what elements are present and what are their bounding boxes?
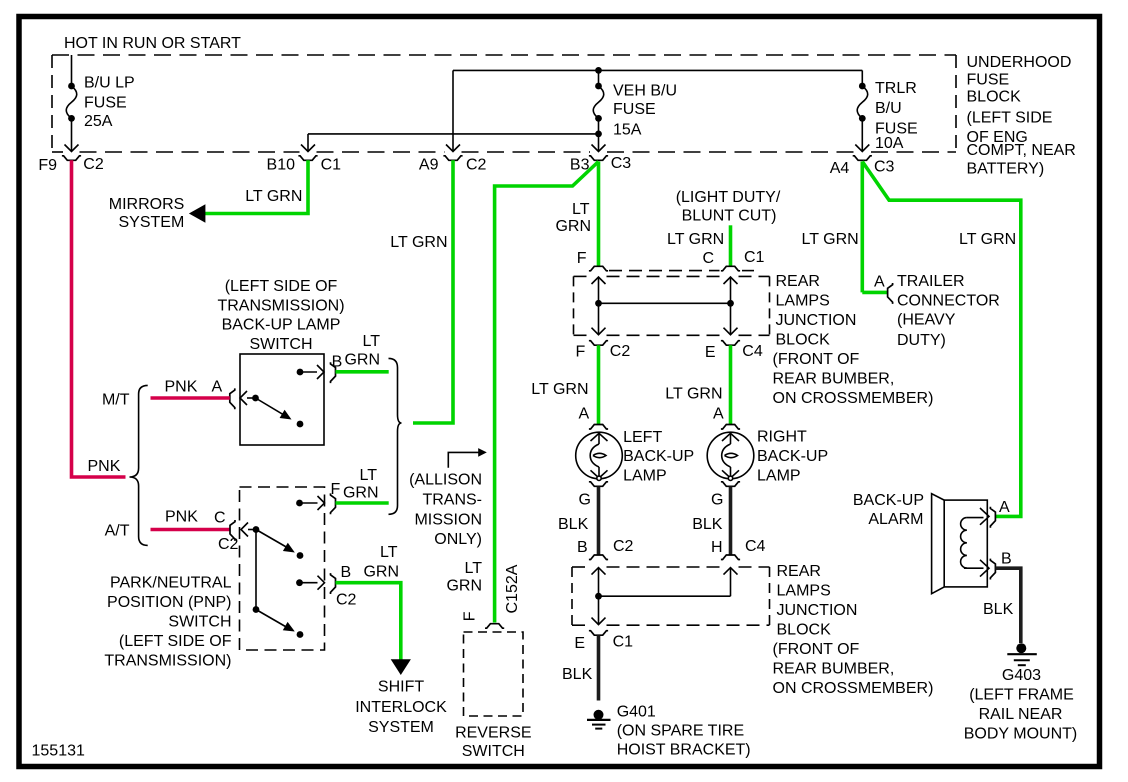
wire LT GRN from PNP B to shift interlock bbox=[336, 583, 401, 660]
svg-text:F: F bbox=[577, 250, 587, 267]
label LEFT BACK-UP LAMP bbox=[623, 429, 694, 484]
connector C C1 (junction block 1 top) bbox=[721, 266, 740, 271]
svg-text:FUSE: FUSE bbox=[84, 95, 127, 112]
arrow to shift interlock system bbox=[391, 659, 411, 675]
svg-text:A: A bbox=[713, 406, 724, 423]
node hot bus tap bbox=[595, 67, 602, 74]
svg-text:(LEFT SIDE: (LEFT SIDE bbox=[967, 110, 1053, 127]
svg-text:JUNCTION: JUNCTION bbox=[777, 602, 858, 619]
connector A (alarm) bbox=[990, 507, 995, 528]
connector A (right lamp) bbox=[721, 425, 740, 430]
svg-text:MIRRORS: MIRRORS bbox=[109, 196, 185, 213]
switch PNP contact F with arrow bbox=[300, 496, 325, 510]
label (LEFT SIDE OF TRANSMISSION) BACK-UP LAMP SWITCH bbox=[217, 278, 344, 353]
connector B (PNP) bbox=[331, 573, 336, 594]
svg-text:UNDERHOOD: UNDERHOOD bbox=[967, 54, 1072, 71]
svg-text:JUNCTION: JUNCTION bbox=[776, 312, 857, 329]
connector B3 C3 bbox=[589, 156, 608, 161]
svg-text:GRN: GRN bbox=[446, 577, 482, 594]
svg-text:G: G bbox=[579, 492, 591, 509]
connector B (S1) bbox=[331, 362, 336, 383]
svg-text:B: B bbox=[332, 354, 343, 371]
back-up lamp switch S1 box bbox=[240, 354, 324, 445]
label SHIFT INTERLOCK SYSTEM bbox=[355, 679, 447, 737]
svg-text:BLK: BLK bbox=[983, 601, 1014, 618]
svg-text:(ALLISON: (ALLISON bbox=[409, 472, 482, 489]
svg-text:LEFT: LEFT bbox=[623, 429, 662, 446]
svg-text:C: C bbox=[702, 250, 714, 267]
connector B C2 (block 2 top) bbox=[589, 555, 608, 560]
svg-text:C3: C3 bbox=[874, 159, 895, 176]
label PARK/NEUTRAL POSITION (PNP) SWITCH (LEFT SIDE OF TRANSMISSION) bbox=[104, 575, 231, 670]
svg-text:H: H bbox=[711, 539, 723, 556]
svg-text:BLOCK: BLOCK bbox=[777, 622, 832, 639]
svg-text:C2: C2 bbox=[610, 343, 631, 360]
svg-text:TRANSMISSION): TRANSMISSION) bbox=[104, 653, 231, 670]
wire feed to B10 bbox=[301, 134, 315, 152]
wire LT GRN from A9 down to brace output bbox=[413, 160, 453, 423]
svg-text:ON CROSSMEMBER): ON CROSSMEMBER) bbox=[773, 390, 934, 407]
svg-text:15A: 15A bbox=[613, 121, 642, 138]
svg-text:LAMPS: LAMPS bbox=[777, 583, 831, 600]
svg-text:A/T: A/T bbox=[105, 523, 130, 540]
svg-text:F9: F9 bbox=[38, 157, 57, 174]
wire LT GRN from B3 to reverse switch bbox=[495, 162, 599, 623]
svg-text:(HEAVY: (HEAVY bbox=[897, 312, 956, 329]
junction block 2 right branch bbox=[724, 568, 738, 597]
svg-text:F: F bbox=[576, 344, 586, 361]
fuse F3 TRLR B/U FUSE 10A bbox=[855, 70, 869, 151]
svg-text:LT: LT bbox=[572, 201, 590, 218]
svg-text:LAMP: LAMP bbox=[623, 467, 667, 484]
junction block 2 left pass-through bbox=[592, 568, 606, 625]
label REAR LAMPS JUNCTION BLOCK 2 bbox=[773, 563, 934, 697]
svg-text:C2: C2 bbox=[83, 156, 104, 173]
svg-text:LAMP: LAMP bbox=[757, 467, 801, 484]
svg-text:LT GRN: LT GRN bbox=[802, 231, 859, 248]
lamp E2 RIGHT BACK-UP LAMP bbox=[707, 432, 754, 480]
switch S1 contact A with arrow bbox=[240, 391, 256, 405]
connector B10 C1 bbox=[298, 156, 317, 161]
svg-text:B: B bbox=[341, 564, 352, 581]
brace left M/T A/T bbox=[130, 385, 148, 545]
svg-text:C2: C2 bbox=[466, 157, 487, 174]
junction block 2 tie wire bbox=[599, 595, 731, 597]
svg-text:(LIGHT DUTY/: (LIGHT DUTY/ bbox=[676, 189, 781, 206]
svg-text:FUSE: FUSE bbox=[967, 72, 1010, 89]
switch PNP arm 2 bbox=[256, 610, 288, 629]
junction block 1 dashed box bbox=[574, 276, 770, 335]
wire fused output bus to B10 bbox=[308, 133, 599, 135]
switch PNP contact C with arrow bbox=[241, 523, 256, 537]
fuse F2 VEH B/U FUSE 15A bbox=[592, 70, 606, 151]
junction block 1 right pass-through bbox=[724, 277, 738, 335]
connector C (PNP) bbox=[230, 520, 235, 541]
connector E C4 (block 1 bottom) bbox=[721, 341, 740, 346]
svg-text:TRANS-: TRANS- bbox=[422, 492, 482, 509]
svg-text:A9: A9 bbox=[419, 157, 439, 174]
brace right outputs bbox=[389, 358, 402, 514]
connector G (right lamp) bbox=[721, 482, 740, 487]
svg-text:M/T: M/T bbox=[102, 392, 130, 409]
svg-text:(LEFT FRAME: (LEFT FRAME bbox=[969, 687, 1074, 704]
lamp E1 LEFT BACK-UP LAMP bbox=[576, 432, 623, 480]
wire LT GRN A4 to back-up alarm bbox=[862, 162, 1021, 517]
connector A (trailer) bbox=[888, 283, 893, 304]
svg-text:PARK/NEUTRAL: PARK/NEUTRAL bbox=[110, 575, 232, 592]
switch PNP contact B with arrow bbox=[300, 576, 325, 590]
svg-text:G401: G401 bbox=[617, 704, 656, 721]
svg-text:TRLR: TRLR bbox=[875, 80, 917, 97]
switch PNP arm 1 bbox=[256, 530, 288, 549]
svg-text:C4: C4 bbox=[742, 343, 763, 360]
svg-text:SWITCH: SWITCH bbox=[168, 614, 231, 631]
svg-text:E: E bbox=[574, 635, 585, 652]
svg-text:25A: 25A bbox=[84, 113, 113, 130]
svg-text:A4: A4 bbox=[830, 160, 850, 177]
svg-text:BACK-UP: BACK-UP bbox=[757, 448, 828, 465]
back-up alarm speaker body bbox=[932, 494, 988, 594]
wire LT GRN blunt cut stub bbox=[729, 225, 733, 266]
svg-text:SHIFT: SHIFT bbox=[378, 679, 424, 696]
svg-text:LT GRN: LT GRN bbox=[959, 231, 1016, 248]
svg-text:(LEFT SIDE OF: (LEFT SIDE OF bbox=[225, 278, 338, 295]
svg-text:RAIL NEAR: RAIL NEAR bbox=[979, 706, 1063, 723]
junction block 1 left pass-through bbox=[592, 277, 606, 335]
connector A (left lamp) bbox=[589, 425, 608, 430]
connector F C2 (block 1 bottom) bbox=[589, 341, 608, 346]
svg-text:A: A bbox=[874, 274, 885, 291]
reverse switch dashed box bbox=[464, 632, 524, 716]
svg-text:A: A bbox=[999, 499, 1010, 516]
PNP switch dashed box bbox=[240, 487, 325, 650]
svg-text:LT GRN: LT GRN bbox=[665, 386, 722, 403]
label RIGHT BACK-UP LAMP bbox=[757, 429, 828, 485]
svg-text:B10: B10 bbox=[267, 157, 296, 174]
svg-text:LT GRN: LT GRN bbox=[245, 188, 302, 205]
node output bus tap bbox=[595, 131, 602, 138]
node fuse F2 bottom bbox=[595, 115, 602, 122]
switch S1 contact B with arrow bbox=[300, 365, 324, 379]
connector A9 C2 bbox=[443, 156, 462, 161]
svg-text:A: A bbox=[579, 406, 590, 423]
svg-text:BATTERY): BATTERY) bbox=[967, 161, 1045, 178]
allison note arrow bbox=[448, 452, 479, 467]
svg-text:(LEFT SIDE OF: (LEFT SIDE OF bbox=[119, 633, 232, 650]
switch PNP link line bbox=[255, 530, 257, 610]
svg-text:G: G bbox=[711, 492, 723, 509]
svg-text:MISSION: MISSION bbox=[414, 512, 482, 529]
svg-text:C2: C2 bbox=[613, 538, 634, 555]
wire feed to A9 bbox=[446, 70, 460, 151]
wire BLK to G401 bbox=[597, 635, 601, 700]
node fuse F2 top bbox=[595, 83, 602, 90]
svg-text:BLK: BLK bbox=[692, 516, 723, 533]
svg-text:SYSTEM: SYSTEM bbox=[119, 214, 185, 231]
connector F (PNP) bbox=[331, 493, 336, 514]
svg-text:BLK: BLK bbox=[558, 516, 589, 533]
svg-text:HOT IN RUN OR START: HOT IN RUN OR START bbox=[64, 35, 241, 52]
svg-text:COMPT, NEAR: COMPT, NEAR bbox=[967, 142, 1076, 159]
svg-text:LAMPS: LAMPS bbox=[776, 293, 830, 310]
connector H C4 (block 2 top) bbox=[721, 555, 740, 560]
label G401 (ON SPARE TIRE HOIST BRACKET) bbox=[617, 704, 751, 759]
svg-text:BACK-UP: BACK-UP bbox=[853, 492, 924, 509]
svg-text:ALARM: ALARM bbox=[868, 511, 923, 528]
svg-text:LT: LT bbox=[360, 467, 378, 484]
svg-text:LT: LT bbox=[363, 333, 381, 350]
svg-text:VEH B/U: VEH B/U bbox=[613, 82, 677, 99]
connector F9 C2 bbox=[62, 156, 81, 161]
ground G403 bbox=[1007, 643, 1037, 665]
arrow to mirrors system bbox=[189, 204, 206, 223]
svg-text:155131: 155131 bbox=[32, 743, 85, 760]
node fuse F1 bottom bbox=[68, 115, 75, 122]
svg-text:FUSE: FUSE bbox=[613, 101, 656, 118]
svg-text:REAR: REAR bbox=[777, 563, 821, 580]
label G403 (LEFT FRAME RAIL NEAR BODY MOUNT) bbox=[964, 667, 1077, 742]
connector A4 C3 bbox=[853, 156, 872, 161]
wire PNK from F9 bbox=[72, 160, 126, 477]
svg-text:C4: C4 bbox=[745, 538, 766, 555]
node fuse F1 top bbox=[68, 83, 75, 90]
svg-text:REAR BUMBER,: REAR BUMBER, bbox=[773, 661, 895, 678]
connector A (S1) bbox=[230, 388, 235, 409]
svg-text:C3: C3 bbox=[611, 155, 632, 172]
node junction block 2 bbox=[595, 593, 602, 600]
svg-text:(ON SPARE TIRE: (ON SPARE TIRE bbox=[617, 723, 744, 740]
svg-text:GRN: GRN bbox=[555, 218, 591, 235]
svg-text:SWITCH: SWITCH bbox=[249, 336, 312, 353]
svg-text:INTERLOCK: INTERLOCK bbox=[355, 699, 447, 716]
wire LT GRN to right lamp bbox=[729, 345, 733, 424]
label TRAILER CONNECTOR (HEAVY DUTY) bbox=[897, 273, 1000, 349]
svg-text:LT GRN: LT GRN bbox=[390, 234, 447, 251]
svg-text:CONNECTOR: CONNECTOR bbox=[897, 293, 1000, 310]
back-up alarm coil bbox=[961, 518, 984, 569]
svg-text:C: C bbox=[214, 510, 226, 527]
svg-text:BLK: BLK bbox=[562, 666, 593, 683]
svg-text:REVERSE: REVERSE bbox=[455, 725, 531, 742]
connector E C1 (block 2 bottom) bbox=[589, 631, 608, 636]
node fuse F3 bottom bbox=[859, 115, 866, 122]
svg-text:PNK: PNK bbox=[88, 458, 121, 475]
svg-text:REAR BUMBER,: REAR BUMBER, bbox=[773, 371, 895, 388]
svg-text:SWITCH: SWITCH bbox=[462, 743, 525, 760]
svg-text:RIGHT: RIGHT bbox=[757, 429, 807, 446]
svg-text:BLOCK: BLOCK bbox=[967, 88, 1022, 105]
svg-text:BACK-UP: BACK-UP bbox=[623, 448, 694, 465]
wire PNK M/T bbox=[151, 396, 230, 400]
svg-text:POSITION (PNP): POSITION (PNP) bbox=[107, 594, 231, 611]
junction block 1 tie wire bbox=[599, 302, 731, 304]
svg-text:TRANSMISSION): TRANSMISSION) bbox=[217, 297, 344, 314]
wire LT GRN A4 to trailer connector bbox=[860, 162, 864, 293]
connector F C152A (reverse switch) bbox=[485, 624, 504, 629]
svg-text:(FRONT OF: (FRONT OF bbox=[773, 641, 860, 658]
label REAR LAMPS JUNCTION BLOCK 1 bbox=[773, 273, 934, 407]
wire LT GRN stub from PNP F bbox=[336, 501, 389, 505]
label (ALLISON TRANSMISSION ONLY) bbox=[409, 472, 482, 548]
svg-text:TRAILER: TRAILER bbox=[897, 273, 965, 290]
svg-text:BLUNT CUT): BLUNT CUT) bbox=[682, 208, 777, 225]
label UNDERHOOD FUSE BLOCK bbox=[967, 54, 1076, 178]
svg-text:B: B bbox=[1001, 551, 1012, 568]
wire LT GRN stub from S1 B bbox=[336, 370, 389, 374]
switch S1 movable arm bbox=[256, 398, 289, 417]
svg-text:PNK: PNK bbox=[165, 509, 198, 526]
underhood fuse block dashed box bbox=[52, 55, 956, 152]
svg-text:B: B bbox=[577, 539, 588, 556]
svg-text:SYSTEM: SYSTEM bbox=[368, 719, 434, 736]
svg-text:HOIST BRACKET): HOIST BRACKET) bbox=[617, 742, 751, 759]
svg-text:PNK: PNK bbox=[165, 378, 198, 395]
connector G (left lamp) bbox=[589, 482, 608, 487]
wire BLK alarm to G403 bbox=[995, 568, 1020, 643]
svg-text:LT GRN: LT GRN bbox=[667, 231, 724, 248]
svg-text:LT GRN: LT GRN bbox=[531, 381, 588, 398]
svg-text:B/U: B/U bbox=[875, 100, 902, 117]
connector B (alarm) bbox=[990, 559, 995, 580]
terminal A arrow (alarm) bbox=[980, 508, 989, 525]
wire LT GRN to left lamp bbox=[597, 345, 601, 424]
svg-text:C1: C1 bbox=[321, 157, 342, 174]
svg-text:ONLY): ONLY) bbox=[434, 531, 482, 548]
svg-text:F: F bbox=[461, 611, 478, 621]
svg-text:10A: 10A bbox=[875, 135, 904, 152]
svg-text:G403: G403 bbox=[1002, 667, 1041, 684]
svg-text:E: E bbox=[705, 344, 716, 361]
terminal B arrow (alarm) bbox=[980, 560, 989, 577]
svg-text:C152A: C152A bbox=[504, 564, 521, 613]
svg-text:F: F bbox=[331, 481, 341, 498]
svg-text:BODY MOUNT): BODY MOUNT) bbox=[964, 726, 1077, 743]
svg-text:C1: C1 bbox=[613, 633, 634, 650]
svg-text:GRN: GRN bbox=[343, 485, 379, 502]
wire PNK A/T bbox=[151, 528, 231, 532]
wire LT GRN B3 to junction block F bbox=[597, 162, 601, 267]
svg-text:C1: C1 bbox=[744, 249, 765, 266]
svg-text:GRN: GRN bbox=[344, 351, 380, 368]
svg-text:ON CROSSMEMBER): ON CROSSMEMBER) bbox=[773, 680, 934, 697]
junction block 2 dashed box bbox=[572, 567, 770, 625]
svg-text:C2: C2 bbox=[336, 592, 357, 609]
wire hot bus upper bbox=[453, 69, 862, 71]
connector F (junction block 1 top) bbox=[589, 266, 608, 271]
svg-text:B/U LP: B/U LP bbox=[84, 75, 135, 92]
svg-text:LT: LT bbox=[380, 544, 398, 561]
svg-text:REAR: REAR bbox=[776, 273, 820, 290]
ground G401 bbox=[587, 710, 611, 729]
node fuse F3 top bbox=[859, 83, 866, 90]
svg-text:(FRONT OF: (FRONT OF bbox=[773, 351, 860, 368]
svg-text:BACK-UP LAMP: BACK-UP LAMP bbox=[222, 317, 341, 334]
node junction block 1 right bbox=[727, 300, 734, 307]
node junction block 1 left bbox=[595, 300, 602, 307]
svg-text:BLOCK: BLOCK bbox=[776, 332, 831, 349]
wire BLK right lamp down bbox=[729, 487, 733, 556]
connector face dashed line (block 1 top) bbox=[609, 270, 720, 272]
svg-text:DUTY): DUTY) bbox=[897, 332, 946, 349]
svg-text:GRN: GRN bbox=[363, 564, 399, 581]
fuse F1 B/U LP FUSE 25A bbox=[65, 55, 79, 152]
svg-text:A: A bbox=[212, 378, 223, 395]
svg-text:LT: LT bbox=[465, 560, 483, 577]
wire BLK left lamp down bbox=[597, 487, 601, 556]
wire LT GRN from B10 to mirrors bbox=[204, 160, 308, 213]
